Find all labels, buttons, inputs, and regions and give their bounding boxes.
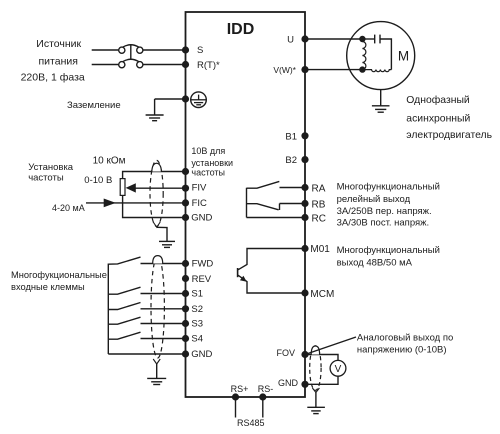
svg-text:B1: B1 [285,131,297,142]
svg-text:Многофункциональный: Многофункциональный [337,181,440,192]
svg-text:GND: GND [191,212,212,223]
svg-text:FIC: FIC [192,198,207,209]
svg-text:частоты: частоты [191,167,225,177]
svg-text:REV: REV [192,274,212,285]
svg-text:Установка: Установка [28,162,74,173]
svg-text:10 кОм: 10 кОм [93,155,126,166]
svg-text:FOV: FOV [277,348,296,358]
svg-text:напряжению (0-10В): напряжению (0-10В) [357,344,447,355]
svg-text:установки: установки [191,158,233,168]
svg-text:S4: S4 [191,334,203,345]
svg-text:RA: RA [312,183,326,194]
svg-text:R(T)*: R(T)* [197,60,220,71]
svg-text:U: U [287,35,294,46]
svg-text:выход 48В/50 мА: выход 48В/50 мА [337,258,413,269]
svg-text:Заземление: Заземление [67,100,121,111]
svg-text:питания: питания [39,55,78,67]
svg-text:IDD: IDD [227,21,255,38]
svg-text:RS+: RS+ [231,384,249,394]
svg-text:V(W)*: V(W)* [273,65,296,75]
svg-text:FIV: FIV [192,183,207,194]
svg-text:RS485: RS485 [237,418,265,428]
svg-text:4-20 мА: 4-20 мА [52,203,85,213]
svg-text:электродвигатель: электродвигатель [406,130,492,141]
svg-text:Аналоговый выход по: Аналоговый выход по [357,332,453,343]
svg-text:частоты: частоты [28,173,64,184]
svg-text:M01: M01 [310,244,330,255]
svg-text:GND: GND [191,349,212,360]
svg-text:3А/30В пост. напряж.: 3А/30В пост. напряж. [337,217,430,228]
svg-text:Источник: Источник [36,38,81,50]
svg-text:RC: RC [312,213,326,224]
svg-text:M: M [398,48,409,63]
svg-text:S3: S3 [191,319,203,330]
svg-text:0-10 В: 0-10 В [84,175,112,186]
svg-text:FWD: FWD [192,259,214,270]
svg-text:GND: GND [278,378,299,388]
svg-text:3А/250В пер. напряж.: 3А/250В пер. напряж. [337,206,432,217]
svg-text:B2: B2 [285,155,297,166]
svg-text:S: S [197,45,203,56]
svg-text:V: V [335,364,342,375]
svg-text:RB: RB [312,199,326,210]
svg-text:релейный выход: релейный выход [337,194,411,205]
svg-text:10В для: 10В для [191,146,225,156]
svg-text:Однофазный: Однофазный [406,94,470,106]
svg-text:220В, 1 фаза: 220В, 1 фаза [21,71,85,83]
svg-text:Многофукциональные: Многофукциональные [11,270,107,280]
svg-text:Многофункциональный: Многофункциональный [337,245,440,256]
svg-text:входные клеммы: входные клеммы [11,282,85,292]
svg-text:асинхронный: асинхронный [406,113,470,124]
svg-text:RS-: RS- [258,384,274,394]
svg-text:S1: S1 [191,289,203,300]
svg-text:S2: S2 [191,304,203,315]
svg-text:MCM: MCM [310,289,334,300]
